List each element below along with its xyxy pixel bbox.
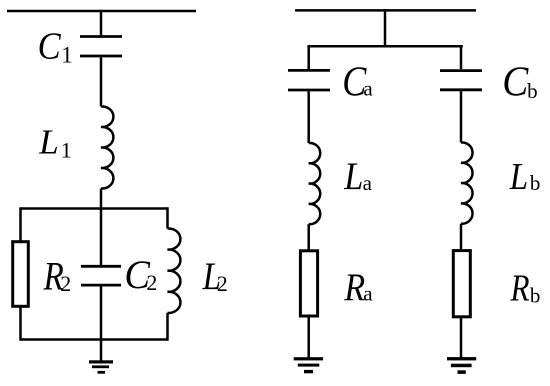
wire: junction to Cb <box>460 45 463 69</box>
inductor La <box>309 143 321 224</box>
capacitor Cb <box>440 71 482 90</box>
wire: tank box bottom side <box>21 338 168 341</box>
svg-text:b: b <box>527 79 538 103</box>
wire: tank box left side upper <box>19 207 22 241</box>
svg-text:a: a <box>363 77 373 101</box>
svg-text:C: C <box>502 58 529 105</box>
svg-text:1: 1 <box>61 42 73 67</box>
svg-text:a: a <box>363 171 373 195</box>
wire: Lb to Rb <box>460 224 463 250</box>
wire: L1 to tank box top <box>100 189 103 210</box>
wire: junction to Ca <box>307 45 310 69</box>
wire: C2 to box bottom <box>100 287 103 340</box>
wire: junction bar <box>307 45 462 48</box>
svg-text:2: 2 <box>60 271 71 296</box>
svg-text:R: R <box>343 265 365 309</box>
wire: tank box right side lower <box>166 313 169 341</box>
inductor Lb <box>461 142 473 223</box>
wire: tank box right side upper <box>166 207 169 228</box>
inductor L1 <box>101 106 113 188</box>
svg-text:L: L <box>509 155 528 198</box>
wire: right top bus bar <box>295 9 476 12</box>
wire: Ca to La <box>307 91 310 143</box>
capacitor C1 <box>80 37 122 57</box>
inductor L2 <box>168 228 181 313</box>
resistor Rb <box>453 251 470 317</box>
svg-text:2: 2 <box>146 270 157 295</box>
wire: Ra to ground a <box>307 316 310 358</box>
ground (branch a) <box>294 357 323 373</box>
wire: Rb to ground b <box>460 317 463 358</box>
wire: box bottom to ground <box>100 340 103 361</box>
wire: tank box top side <box>21 207 168 210</box>
svg-text:b: b <box>530 284 541 308</box>
wire: Cb to Lb <box>460 91 463 142</box>
svg-text:a: a <box>363 282 373 306</box>
svg-text:2: 2 <box>217 271 228 296</box>
wire: C1 to L1 <box>100 57 103 106</box>
wire: stub from left bus down to C1 <box>100 10 103 35</box>
ground (left circuit) <box>89 360 113 373</box>
wire: left top bus bar <box>7 10 196 13</box>
svg-text:1: 1 <box>61 138 72 163</box>
wire: tank box left side lower <box>19 307 22 341</box>
svg-text:C: C <box>38 25 62 67</box>
ground (branch b) <box>447 357 476 374</box>
svg-text:L: L <box>38 123 58 162</box>
wire: stub from right bus to junction bar <box>384 9 387 46</box>
svg-text:R: R <box>510 267 530 310</box>
resistor Ra <box>300 251 317 316</box>
capacitor C2 <box>81 266 121 285</box>
wire: box top to C2 <box>100 209 103 266</box>
wire: La to Ra <box>307 224 310 249</box>
svg-text:b: b <box>530 171 541 195</box>
capacitor Ca <box>288 70 330 90</box>
svg-text:L: L <box>343 154 363 198</box>
resistor R2 <box>13 242 29 307</box>
